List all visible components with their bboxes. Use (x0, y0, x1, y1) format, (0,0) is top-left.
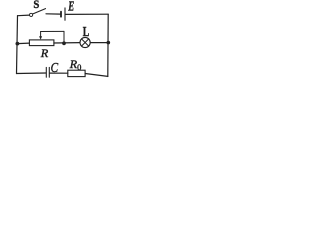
rheostat slider arrowhead (39, 36, 42, 39)
wire lamp to right vertical (90, 42, 108, 44)
capacitor C right plate (48, 67, 50, 77)
battery E short plate (60, 12, 62, 17)
switch S pivot circle (30, 13, 33, 16)
rheostat slider arrow vertical (40, 32, 42, 37)
wire battery to top-right corner (66, 13, 109, 15)
lamp L cross stroke 2 (82, 39, 89, 46)
wire top-left segment (18, 14, 30, 17)
svg-text:L: L (83, 25, 90, 40)
rheostat tap vertical wire (63, 31, 65, 43)
lamp L cross stroke 1 (82, 39, 89, 46)
svg-text:E: E (68, 0, 75, 15)
wire bottom-left segment (17, 72, 46, 75)
junction node right (lamp to right vertical) (107, 41, 111, 45)
junction node rheostat tap (62, 41, 66, 45)
svg-text:R0: R0 (69, 57, 82, 72)
svg-text:S: S (33, 0, 39, 11)
lamp L circle (80, 37, 90, 47)
wire switch to battery (46, 13, 60, 15)
rheostat tap horizontal wire (41, 30, 64, 32)
resistor R0 rectangle (68, 70, 85, 76)
resistor R rectangle (29, 40, 54, 46)
svg-text:C: C (51, 61, 59, 76)
wire middle-left segment (17, 42, 29, 45)
wire capacitor to R0 (50, 72, 68, 74)
wire right vertical (107, 14, 109, 76)
junction node left (R branch) (16, 42, 20, 46)
switch S arm (33, 9, 46, 14)
svg-text:R: R (40, 46, 49, 60)
wire R0 to bottom-right corner (85, 74, 108, 77)
wire R to lamp (54, 42, 80, 44)
capacitor C left plate (45, 67, 47, 77)
wire left vertical (17, 16, 18, 74)
battery E long plate (64, 8, 66, 20)
